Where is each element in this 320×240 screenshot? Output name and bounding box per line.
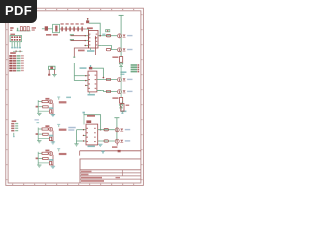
junction x95 [95,37,97,39]
title block date text [81,171,92,173]
resistor R1 value text [112,56,118,58]
second resistor C [43,158,49,160]
value text A inner [49,107,53,109]
part number text B [59,129,67,131]
resistor bottom wire A [51,112,54,114]
diode D3 below R2 [119,105,123,110]
resistor R2 value text [112,97,118,99]
base resistor A [42,101,48,103]
resistor R3 above block3 [121,101,124,114]
left feed wires IC2 [74,63,85,81]
supply tap C [57,148,60,151]
IC1 right pin stubs [98,35,102,46]
title block vertical divider [121,170,123,176]
frame tick labels left edge [6,14,7,180]
wire loop over IC3 [84,114,101,130]
IC3 left pin stubs [83,129,86,142]
ground left of IC3 [74,143,78,145]
note text right of cell B [68,127,75,131]
title block rev text [81,180,104,182]
supply rail vertical wire block2 [120,70,122,98]
transistor LED5 row [115,128,119,132]
polarized cap C3 [86,120,91,123]
net label 2 [70,39,74,40]
supply T symbol block3 [114,117,119,119]
wire above terminal block J2 [13,50,23,52]
IC1 name text [87,27,93,29]
wire LED3 row [101,79,117,81]
value text C inner [49,159,53,161]
IC1 body [88,30,98,48]
transistor LED4 row [118,90,122,94]
wire vertical branch x95 [95,36,97,55]
note text above resistor network [61,23,84,25]
wire LED5 row [98,129,115,131]
part number text A [59,101,67,103]
wire net row 1 [71,35,85,37]
title block title text [81,177,102,179]
IC2 right pin stubs [97,80,101,91]
net label text above cell B [35,119,40,123]
wire LED2 row [102,46,117,50]
LED LED6 row [120,140,123,143]
module note text block right [131,64,140,72]
ground B left [37,140,41,142]
IC1 value text [87,50,94,52]
wire LED4 row [97,90,117,91]
diode D2 below R1 [119,63,123,69]
terminal block J2 rows [9,55,23,71]
input wires C [38,152,49,165]
supply vertical wire block3 [116,118,118,141]
connector J1 body [10,36,21,42]
net label 1 [70,34,74,35]
supply T symbol right rail [119,14,124,16]
schematic frame outer border [6,8,144,185]
resistor network RN1 [61,26,82,31]
emitter stub below transistor row B [116,143,118,145]
LED label LED1 row [127,35,132,36]
title block doc number text [81,174,89,176]
ground tap on long net [101,151,104,154]
title block row line 3 [80,175,141,177]
collector wire B [52,131,54,143]
connector J3 name text [12,120,17,122]
input net arrow C [36,158,38,160]
base resistor LED4 row [106,90,110,92]
base resistor C [42,152,48,154]
connector J3 rows [11,123,18,132]
resistor bottom wire B [51,140,54,142]
wire drop to lower stub [74,36,88,57]
connector J1 name text [10,34,15,36]
second resistor A [43,106,49,108]
pin header value text [32,27,36,30]
value text under X1 [46,34,58,36]
schematic frame inner border [8,11,141,183]
LED label LED3 row [127,79,132,80]
pin marker on long net [118,150,121,152]
value text B inner [49,135,53,137]
frame tick labels bottom edge [12,184,134,185]
terminal block J2 name text [10,52,16,54]
frame tick labels top edge [12,9,134,10]
base resistor LED3 row [106,78,110,80]
IC2 body [88,71,97,92]
IC3 value text [88,146,95,148]
transistor B [49,127,53,131]
PDF badge [0,0,37,23]
resistor bottom wire C [51,164,54,166]
pulldown resistor A [49,110,51,113]
LED label LED4 row [127,91,132,92]
input net arrow B [36,133,38,135]
wire LED6 row [98,140,115,142]
wire into diode D1 [42,28,45,30]
net label at IC1 loop corner [102,34,105,35]
polarized cap C2 [89,67,92,70]
junction IC3 right pin 1 [100,129,102,131]
wire corner bus to net row 1 [86,29,89,36]
IC3 body [86,124,98,145]
IC2 left pin stubs [85,75,88,86]
supply pin above C2 [90,65,92,67]
resistor R2 on supply rail [120,98,123,105]
resistor R1 on supply rail [120,57,123,64]
IC3 name text [87,115,95,117]
title block row line 2 [80,172,141,174]
wire loop over IC1 [89,23,101,36]
net label text left of IC2 [80,67,87,69]
diode D1 [45,26,48,30]
pulldown resistor B [49,137,51,140]
base resistor B [42,128,48,130]
designator text P1 [10,27,13,31]
left feed wires IC3 [77,130,83,144]
ground under crystal [52,74,56,76]
input wires B [38,128,49,141]
net name text mid [78,50,85,52]
connector J1 pins [11,42,21,49]
regulator X1 body [53,24,60,32]
ground text under diode D2 [120,71,126,75]
base resistor LED2 row [106,48,110,50]
input net arrow A [36,106,38,108]
junction IC2 right pin 1 [103,77,105,79]
supply label top of loop [83,112,85,114]
supply pin above C1 [87,18,89,20]
collector wire C [52,155,54,167]
IC1 left pin stubs [85,35,89,46]
part number text C [59,153,67,155]
driver cell B label [45,125,49,127]
bus wire through resistor network [60,28,86,30]
ground B right [51,141,55,143]
LED LED4 row [123,90,126,93]
pulldown resistor C [49,162,51,165]
IC2 value text [88,94,95,96]
title block sheet text [116,177,121,178]
crystal right leg wire [53,70,55,75]
transistor LED6 row [115,139,119,143]
LED label LED6 row [125,140,130,141]
second resistor B [43,133,49,135]
transistor LED3 row [118,78,122,82]
transistor A [49,100,53,104]
ground A left [37,112,41,114]
net text below outputs [112,146,117,148]
wire LED1 row [102,35,117,37]
crystal Y1 body [49,66,55,69]
junction net row 1 [88,35,90,37]
title block row line 4 [80,178,141,180]
IC2 ground stub [89,92,91,94]
connector J3 pin stub [13,133,15,137]
LED LED1 row [123,35,126,38]
transistor LED1 row [118,34,122,38]
base resistor LED6 row [104,140,108,142]
input wires A [38,100,49,113]
ground under output row [98,143,102,145]
pin header JP1 [17,27,31,31]
bypass resistor above IC1 output [106,30,110,32]
LED LED2 row [123,48,126,51]
supply tap B [57,124,60,127]
pin tick at drop end [73,57,75,58]
ground C left [37,164,41,166]
transistor LED2 row [118,48,122,52]
driver cell C label [45,150,49,152]
title block row line 1 [80,169,141,171]
LED LED3 row [123,78,126,81]
pin stub D1 to X1 [48,28,53,30]
long net wire above title block [80,150,141,152]
LED label LED2 row [127,49,132,50]
LED LED5 row [120,129,123,132]
crystal left pad [48,74,50,76]
wire net row 2 [71,40,85,42]
wire stub down from long net [79,151,81,156]
ground A right [51,114,55,116]
ground text under diode D3 [120,111,126,113]
LED label LED5 row [125,129,130,130]
ground C right [51,165,55,167]
base resistor LED1 row [106,35,110,37]
frame tick labels right edge [141,14,142,180]
crystal left leg wire [48,70,50,75]
title block box [80,159,141,183]
IC1 ground stub [90,48,92,50]
collector wire A [52,103,54,115]
resistor R3 name text [126,105,130,107]
supply rail vertical wire [120,15,122,56]
driver cell A label [45,98,49,100]
base resistor LED5 row [104,129,108,131]
polarized cap C1 [86,20,89,23]
transistor C [49,152,53,156]
note text right of cell A [66,97,71,99]
supply tap A [57,97,60,100]
wire loop over IC2 [92,68,103,77]
